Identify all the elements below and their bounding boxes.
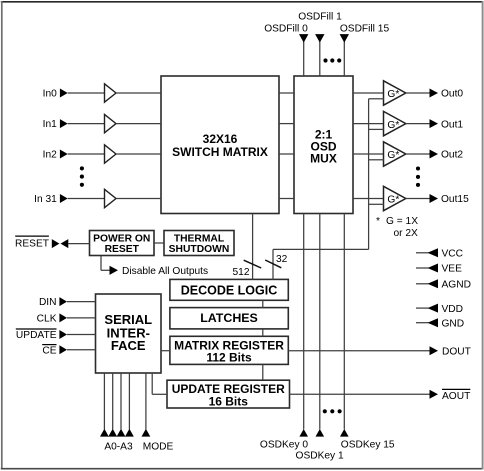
svg-text:A0-A3: A0-A3: [104, 441, 133, 452]
svg-text:Out15: Out15: [441, 194, 469, 205]
svg-text:*: *: [376, 216, 380, 227]
svg-text:GND: GND: [442, 318, 465, 329]
svg-text:AOUT: AOUT: [442, 391, 470, 402]
svg-text:G*: G*: [387, 195, 399, 206]
svg-text:or 2X: or 2X: [394, 228, 419, 239]
svg-text:RESET: RESET: [105, 244, 140, 255]
svg-text:In2: In2: [43, 150, 57, 161]
svg-text:LATCHES: LATCHES: [200, 311, 258, 325]
svg-text:RESET: RESET: [15, 239, 49, 250]
svg-text:OSDFill 0: OSDFill 0: [264, 24, 308, 35]
svg-text:In1: In1: [43, 119, 57, 130]
svg-text:UPDATE: UPDATE: [16, 330, 57, 341]
svg-text:VDD: VDD: [442, 304, 464, 315]
svg-text:G*: G*: [387, 89, 399, 100]
svg-text:OSDKey 0: OSDKey 0: [260, 440, 308, 451]
svg-text:OSDKey 1: OSDKey 1: [296, 451, 344, 462]
svg-text:Out2: Out2: [441, 150, 463, 161]
svg-text:MODE: MODE: [143, 441, 174, 452]
svg-text:DOUT: DOUT: [442, 346, 471, 357]
svg-text:G*: G*: [387, 120, 399, 131]
svg-text:OSDKey 15: OSDKey 15: [341, 440, 395, 451]
svg-text:G*: G*: [387, 150, 399, 161]
svg-text:16 Bits: 16 Bits: [209, 394, 249, 408]
svg-text:In 31: In 31: [34, 194, 57, 205]
svg-text:512: 512: [233, 267, 250, 278]
svg-text:SHUTDOWN: SHUTDOWN: [169, 244, 230, 255]
svg-text:Disable All Outputs: Disable All Outputs: [122, 266, 208, 277]
svg-text:112 Bits: 112 Bits: [206, 351, 252, 365]
svg-text:THERMAL: THERMAL: [174, 234, 224, 245]
svg-text:Out0: Out0: [441, 89, 463, 100]
svg-text:VEE: VEE: [442, 264, 463, 275]
svg-text:FACE: FACE: [111, 338, 146, 353]
svg-text:CLK: CLK: [37, 314, 57, 325]
svg-text:OSDFill 15: OSDFill 15: [340, 24, 390, 35]
svg-text:G = 1X: G = 1X: [386, 216, 418, 227]
svg-text:DECODE LOGIC: DECODE LOGIC: [181, 283, 278, 297]
svg-text:VCC: VCC: [442, 249, 464, 260]
svg-text:POWER ON: POWER ON: [93, 234, 150, 245]
svg-text:OSDFill 1: OSDFill 1: [298, 12, 342, 23]
svg-text:32X16: 32X16: [203, 132, 238, 146]
svg-text:In0: In0: [43, 89, 57, 100]
svg-text:DIN: DIN: [39, 297, 57, 308]
svg-text:SWITCH MATRIX: SWITCH MATRIX: [172, 145, 268, 159]
svg-text:32: 32: [276, 254, 288, 265]
svg-text:MUX: MUX: [310, 152, 337, 166]
svg-text:AGND: AGND: [442, 280, 471, 291]
svg-text:Out1: Out1: [441, 119, 463, 130]
svg-text:CE: CE: [42, 345, 56, 356]
